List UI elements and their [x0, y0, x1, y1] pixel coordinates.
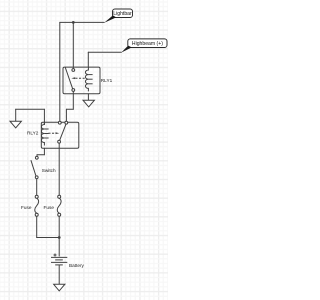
svg-text:RLY2: RLY2	[27, 131, 39, 136]
svg-text:Switch: Switch	[42, 168, 56, 173]
svg-text:Fuse: Fuse	[21, 205, 32, 210]
svg-text:Lightbar: Lightbar	[113, 11, 132, 17]
svg-text:Highbeam (+): Highbeam (+)	[132, 41, 163, 47]
svg-text:Fuse: Fuse	[44, 205, 55, 210]
svg-text:RLY1: RLY1	[101, 78, 113, 83]
svg-text:Battery: Battery	[69, 263, 85, 268]
